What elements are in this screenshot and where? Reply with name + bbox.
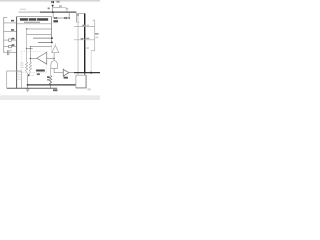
node join [27,73,31,76]
rail top [19,11,40,13]
diode D2 [64,17,66,19]
wire row3 [4,31,17,33]
wire inner vertical [77,15,79,75]
IC title text [20,18,28,21]
wire right row1 [74,26,95,28]
label below amp [64,77,68,79]
IC U1 top edge [17,16,52,18]
dashed box [22,52,47,73]
diode D1 [54,17,56,19]
wire pin row C [27,34,52,36]
resistor RB zigzag [29,62,31,72]
label cluster [36,70,45,72]
IC right edge [51,17,53,43]
IC faint inner rows [18,71,22,74]
faint text right of box [87,88,90,90]
top window band [0,0,100,2]
triangle symbol [52,45,59,52]
bottom gray band [0,95,100,100]
wire pin row A [17,23,52,25]
bus line 2 [7,87,58,89]
wire stub up [68,12,70,18]
wire amp3 out [69,72,74,74]
capacitor C1 [4,52,7,54]
right margin text [95,33,99,35]
wire right column [93,19,95,21]
node dot [30,48,31,49]
wire vertical col [26,29,28,62]
wire row1 stub [4,17,7,19]
resistor R5 [50,68,52,75]
resistor R3 [4,39,9,41]
wire pin row E [38,41,52,43]
wire row2 [4,22,17,24]
background [0,0,100,100]
bus line 1 [28,84,76,86]
faint label [86,47,88,49]
node dot inside box [77,14,79,16]
power flag [51,5,54,8]
wire amp out [30,57,36,59]
IC U1 left edge [16,17,18,89]
ground [66,8,68,9]
node dot [51,42,53,44]
connector box top right [77,13,85,22]
wire short G [27,48,33,50]
5V text [51,1,52,3]
label R2 [11,29,14,31]
wire mid vertical [53,53,55,62]
label C1 [9,50,11,51]
ground symbol [26,88,30,90]
connector box bottom right [76,75,86,88]
dark bus vertical [84,14,86,73]
node dot [51,37,53,39]
stub left [52,13,54,18]
stub bus to box [84,73,86,76]
node dot [68,17,70,19]
component mark [26,48,27,49]
wire amp3 in [54,68,63,72]
wire diode row [53,17,69,19]
op-amp U3 [63,69,69,76]
op-amp U2 (points left) [37,52,47,64]
wire amp right [47,57,54,59]
wire node down [27,75,29,88]
pin text column [20,62,23,65]
wire pin row F [31,46,52,48]
IC subtitle text [24,22,40,23]
connector box bottom left [7,71,22,88]
wire vertical col2 [29,47,31,62]
wire right row2 [74,39,95,41]
resistor RA zigzag [26,62,28,72]
wire left input bus [3,17,5,52]
wire pin row D [33,37,52,39]
resistor R4 [4,46,9,48]
dome symbol [51,61,58,69]
label R5 [47,76,50,78]
junction on rail [52,11,54,13]
wire pin row B [27,28,52,30]
label D1 [53,20,58,22]
capacitor C2 [59,5,61,7]
wire 5v right [53,7,60,9]
label gnd [53,89,58,91]
wire 5v down [52,7,54,12]
label R1 [11,20,14,22]
